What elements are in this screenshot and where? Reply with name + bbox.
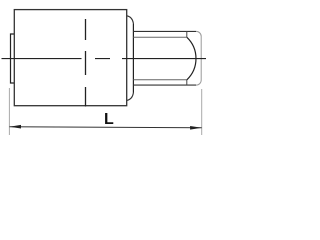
svg-text:L: L <box>104 111 114 128</box>
